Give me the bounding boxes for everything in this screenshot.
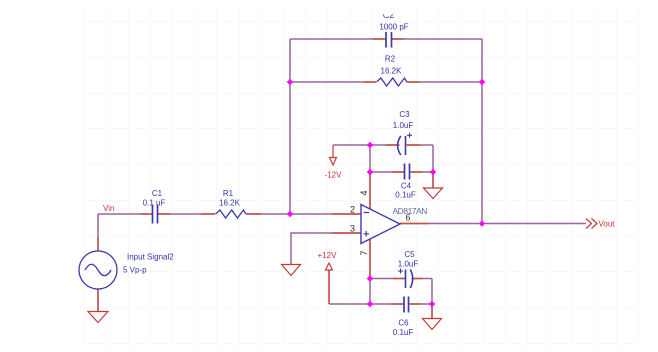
- lead: op-amp pin 2: [332, 213, 361, 215]
- svg-text:16.2K: 16.2K: [219, 199, 241, 208]
- resistor R1 labels: [219, 189, 241, 208]
- svg-text:7: 7: [359, 250, 369, 255]
- lead: op-amp pin 3: [332, 232, 361, 234]
- svg-text:4: 4: [359, 190, 369, 195]
- svg-text:C4: C4: [401, 182, 412, 191]
- ground (C5/C6 right): [423, 304, 442, 330]
- lead: R2 right: [407, 81, 419, 83]
- svg-text:-12V: -12V: [325, 171, 343, 180]
- wire: R1 to op-amp pin 2: [246, 213, 361, 215]
- wire: source to ground: [97, 289, 99, 311]
- svg-text:C1: C1: [152, 189, 163, 198]
- svg-text:1000 pF: 1000 pF: [379, 23, 408, 32]
- lead: C3 left: [386, 144, 400, 146]
- lead: C2 right: [392, 38, 405, 40]
- junction: R2 left / feedback left: [287, 79, 293, 85]
- capacitor C2: [386, 32, 392, 48]
- source labels: [123, 253, 174, 275]
- lead: op-amp pin 4: [369, 172, 371, 210]
- capacitor C5 labels: [398, 250, 419, 269]
- power +12V arrow: [326, 263, 333, 304]
- wire: C3 branch: [333, 144, 433, 146]
- svg-text:3: 3: [350, 224, 355, 234]
- wire: pin 3 to ground: [291, 233, 361, 265]
- lead: R1 right: [246, 213, 261, 215]
- lead: C4 right: [411, 171, 423, 173]
- junction: C6 branch / pin7 vertical: [367, 301, 373, 307]
- capacitor C6: [404, 297, 409, 313]
- wire: pin 4 vertical: [369, 145, 371, 210]
- svg-text:C5: C5: [404, 250, 415, 259]
- wire: C5 branch: [370, 278, 432, 280]
- wire: feedback right vertical: [481, 39, 483, 224]
- wire: C1 to R1: [158, 213, 215, 215]
- lead: C2 left: [373, 38, 386, 40]
- ground (below source): [88, 300, 108, 323]
- svg-text:1.0uF: 1.0uF: [393, 121, 414, 130]
- capacitor C3 (polarized): [398, 133, 412, 155]
- wire: R2 branch: [290, 81, 482, 83]
- lead: C3 right: [407, 144, 421, 146]
- wire: right vertical C5-C6-ground: [431, 279, 433, 319]
- svg-text:Input Signal2: Input Signal2: [127, 253, 174, 262]
- svg-text:Vout: Vout: [599, 220, 616, 229]
- lead: C6 right: [410, 303, 422, 305]
- lead: C5 left: [393, 278, 405, 280]
- lead: source bottom: [97, 289, 99, 300]
- lead: R1 left: [201, 213, 215, 215]
- capacitor C1: [153, 205, 158, 224]
- wire: Vin down to source: [97, 214, 99, 251]
- resistor R1: [216, 210, 246, 218]
- svg-text:0.1 uF: 0.1 uF: [143, 199, 166, 208]
- resistor R2: [377, 78, 407, 86]
- wire: pin 7 vertical: [369, 239, 371, 304]
- svg-text:1.0uF: 1.0uF: [398, 260, 419, 269]
- capacitor C4: [405, 164, 410, 180]
- junction: C6 branch right: [429, 301, 435, 307]
- lead: R2 left: [364, 81, 376, 83]
- svg-text:0.1uF: 0.1uF: [395, 191, 416, 200]
- junction dots: [287, 79, 485, 307]
- Vout connector chevrons: [586, 219, 597, 229]
- wire: +12V vertical stub: [328, 270, 330, 304]
- capacitor C4 labels: [395, 182, 416, 200]
- ground (pin 3 net): [282, 265, 301, 276]
- op-amp minus input mark: [364, 212, 370, 214]
- svg-text:5 Vp-p: 5 Vp-p: [123, 266, 147, 275]
- junction: C4 branch / pin4 vertical: [367, 169, 373, 175]
- red component leads: [98, 39, 429, 304]
- svg-text:Vin: Vin: [103, 204, 114, 213]
- svg-text:C3: C3: [399, 110, 410, 119]
- resistor R2 labels: [381, 55, 403, 76]
- lead: op-amp pin 7: [369, 239, 371, 279]
- capacitor C1 labels: [143, 189, 166, 208]
- svg-text:R2: R2: [385, 55, 396, 64]
- lead: C6 left: [391, 303, 404, 305]
- svg-text:R1: R1: [223, 189, 234, 198]
- wire: Vin input line to C1: [98, 213, 152, 215]
- op-amp U1 AD817AN: [361, 205, 400, 244]
- lead: C1 left: [141, 213, 152, 215]
- junction: output / feedback right: [479, 220, 485, 226]
- wire: C2 top branch: [290, 38, 482, 40]
- capacitor C2 labels: [379, 10, 408, 32]
- op-amp plus input mark: [364, 231, 370, 237]
- capacitor C6 labels: [393, 319, 414, 338]
- junction: C5 branch / pin7 vertical: [367, 275, 373, 281]
- junction: C4 branch right: [430, 169, 436, 175]
- wire: right vertical C3-C4-ground: [432, 145, 434, 188]
- capacitor C3 labels: [393, 110, 414, 130]
- svg-text:2: 2: [350, 205, 355, 215]
- lead: op-amp pin 6 output: [400, 223, 429, 225]
- svg-text:+12V: +12V: [318, 251, 338, 260]
- lead: C5 right: [412, 278, 424, 280]
- wire: C6 branch with +12V stub: [329, 303, 432, 305]
- lead: source top: [97, 237, 99, 251]
- svg-text:0.1uF: 0.1uF: [393, 328, 414, 337]
- junction: R2 right / feedback right: [479, 79, 485, 85]
- wire: op-amp output to Vout: [400, 223, 586, 225]
- junction: C3 branch / pin4 vertical: [367, 142, 373, 148]
- capacitor C5 (polarized): [398, 269, 413, 289]
- svg-text:16.2K: 16.2K: [381, 67, 403, 76]
- junction: input line / feedback left: [287, 211, 293, 217]
- svg-text:6: 6: [405, 213, 410, 223]
- lead: C1 right: [158, 213, 170, 215]
- AC source V1: [79, 251, 117, 289]
- svg-text:C6: C6: [398, 319, 409, 328]
- wire: feedback left vertical: [289, 39, 291, 214]
- power -12V arrow: [330, 145, 337, 165]
- ground (C3/C4 right): [424, 172, 443, 199]
- lead: C4 left: [392, 171, 404, 173]
- wire: C4 branch: [370, 171, 433, 173]
